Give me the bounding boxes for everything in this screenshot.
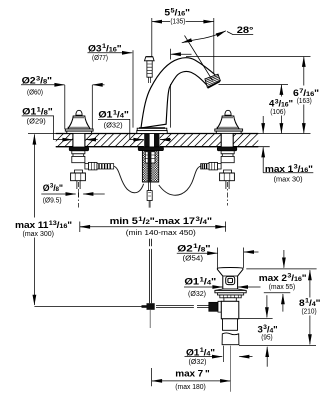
- dimension 3 3/4 (95): [239, 295, 316, 366]
- flexible hose right: [159, 166, 201, 195]
- dia 1 1/4 (32) spout label: [98, 119, 171, 139]
- right handle: [215, 110, 243, 133]
- spout base flange: [137, 128, 167, 134]
- dimension max 2 3/16 (max 55): [246, 250, 316, 312]
- svg-text:8 1/4": 8 1/4": [299, 297, 320, 308]
- spout shank below deck: [138, 147, 163, 182]
- svg-text:4 3/16": 4 3/16": [269, 98, 293, 109]
- dia 1 1/8 (29) label: [22, 116, 98, 140]
- left valve body below deck: [69, 147, 114, 181]
- dimension 4 3/16 (106): [219, 85, 289, 134]
- dia 2 3/8 (60) label: [21, 85, 105, 129]
- dimension max 7 (max 180): [152, 368, 231, 386]
- 28 degree angle annotation: [182, 31, 311, 81]
- deck top line: [28, 133, 311, 135]
- dia 2 1/8 (54) label: [177, 248, 259, 268]
- svg-text:(Ø32): (Ø32): [104, 123, 123, 130]
- pivot ball nut: [209, 302, 218, 311]
- clevis joint: [142, 303, 155, 328]
- svg-text:(min 140-max 450): (min 140-max 450): [126, 230, 196, 237]
- svg-text:(Ø9.5): (Ø9.5): [43, 197, 62, 204]
- svg-text:(135): (135): [170, 18, 185, 25]
- left supply pipe: [77, 181, 80, 208]
- svg-text:max 7 ": max 7 ": [175, 367, 209, 378]
- dimension max 1 3/16 (max 30) deck thickness: [263, 116, 313, 173]
- dimension 6 7/16 (163): [303, 57, 305, 134]
- drain escutcheon flange: [215, 289, 246, 298]
- svg-text:(max 30): (max 30): [274, 177, 303, 184]
- deck bottom line: [56, 146, 270, 148]
- countertop deck hatch: [50, 133, 266, 147]
- svg-text:(106): (106): [270, 109, 286, 116]
- pop-up lift rod (lower drawing): [150, 239, 152, 303]
- svg-text:(163): (163): [297, 98, 312, 105]
- svg-text:(max 180): (max 180): [175, 384, 206, 391]
- svg-text:(Ø32): (Ø32): [189, 359, 207, 366]
- svg-text:(Ø29): (Ø29): [27, 119, 46, 126]
- dia 1 1/4 (32) drain waist label: [184, 286, 261, 288]
- svg-text:3 3/4": 3 3/4": [258, 323, 278, 334]
- dia 1 1/4 (32) pipe label: [185, 356, 253, 358]
- svg-text:5 5/16": 5 5/16": [164, 7, 190, 18]
- dimension min 5 1/2 - max 17 3/4: [80, 222, 226, 233]
- svg-text:(max 300): (max 300): [23, 231, 55, 238]
- spout body: [141, 58, 216, 128]
- left handle shank in deck: [73, 133, 85, 147]
- dia 3/8 (9.5) supply label: [41, 191, 104, 198]
- dimension 5 5/16 (135): [152, 18, 214, 74]
- right supply pipe: [226, 181, 229, 206]
- svg-text:6 7/16": 6 7/16": [293, 87, 319, 98]
- dimension max 11 13/16 (max 300): [33, 134, 35, 305]
- dia 3 1/16 (77) label: [88, 49, 192, 128]
- dimension 8 1/4 (210): [309, 270, 311, 344]
- drain flange cup: [217, 267, 243, 289]
- svg-text:(210): (210): [302, 309, 317, 316]
- pipe extension lines below drain: [223, 346, 230, 392]
- drain body tube and tee: [221, 298, 239, 345]
- svg-text:(Ø32): (Ø32): [188, 291, 206, 298]
- flexible hose left: [114, 166, 144, 193]
- right valve body below deck: [201, 147, 237, 181]
- svg-text:(Ø77): (Ø77): [92, 55, 108, 62]
- spout aerator outlet: [205, 74, 221, 89]
- svg-text:(max 55): (max 55): [269, 284, 295, 291]
- svg-text:Ø 3/8": Ø 3/8": [43, 182, 63, 193]
- svg-text:28°: 28°: [237, 24, 254, 35]
- lift rod below shank: [147, 182, 152, 208]
- left handle: [65, 110, 93, 133]
- svg-text:(95): (95): [261, 335, 272, 342]
- spout shank in deck: [144, 133, 160, 147]
- horizontal pivot rod: [34, 305, 144, 307]
- svg-text:(Ø54): (Ø54): [183, 256, 204, 263]
- svg-text:(Ø60): (Ø60): [27, 89, 43, 96]
- lift rod knob on spout: [145, 57, 155, 83]
- right handle shank in deck: [221, 133, 233, 147]
- pivot rod to drain: [156, 306, 209, 308]
